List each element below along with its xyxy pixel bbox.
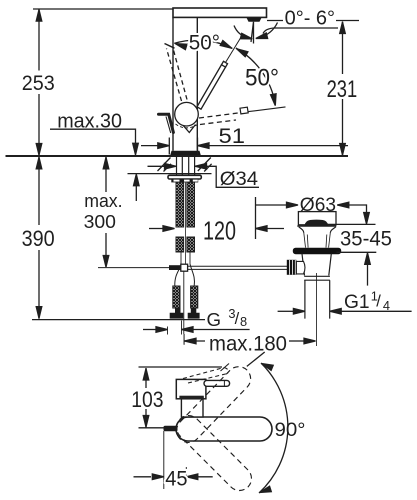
aerator tilt line — [251, 22, 254, 44]
dim 120 line — [149, 228, 163, 230]
lever solid outline — [197, 61, 228, 109]
plan body — [176, 379, 206, 398]
o63 right drop arrow — [366, 204, 368, 212]
g38 underline — [182, 329, 250, 331]
plan view 103 top line — [139, 366, 223, 368]
svg-text:51: 51 — [219, 125, 246, 148]
spout bar — [173, 8, 267, 17]
svg-text:max.: max. — [84, 190, 122, 211]
spout hook inner line — [166, 117, 171, 134]
plan lever tick — [223, 381, 225, 387]
g114 left arrow — [278, 310, 294, 312]
plan solid spout pill — [176, 417, 272, 441]
popup plug dome — [305, 220, 329, 226]
rod double line right — [188, 266, 287, 269]
dim 253 extension line top — [33, 8, 173, 10]
body left edge — [172, 18, 174, 151]
max30 leader — [50, 129, 136, 143]
drain body — [302, 254, 331, 276]
g38 dim ext lines — [168, 321, 182, 335]
hose curve right — [190, 264, 194, 286]
dim 103 line — [145, 368, 147, 428]
aerator outlet — [247, 18, 262, 22]
svg-text:253: 253 — [22, 71, 55, 95]
faucet centerline below — [183, 271, 185, 344]
dim 390 line — [38, 157, 40, 319]
stud tails — [181, 252, 190, 266]
arc 50 upper — [174, 40, 232, 49]
lowered lever cap box — [240, 107, 248, 114]
35-45 lower arrow — [367, 264, 369, 286]
drain neck — [304, 233, 331, 248]
stud left upper — [176, 182, 184, 227]
svg-text:8: 8 — [240, 314, 247, 329]
lever axis line — [226, 38, 241, 63]
stud caps — [176, 182, 195, 185]
drain pipe — [305, 280, 330, 318]
max180 left arrow — [185, 338, 197, 344]
35-45 top line — [327, 223, 376, 225]
svg-text:50°: 50° — [189, 31, 220, 55]
svg-text:120: 120 — [203, 218, 236, 246]
hose right — [191, 286, 198, 308]
dim o34 arrows — [148, 165, 165, 167]
dim max300 line — [105, 157, 107, 267]
svg-text:90°: 90° — [275, 420, 306, 441]
connector right — [188, 308, 200, 319]
hose left — [173, 286, 180, 308]
dim 45 arrows — [134, 476, 152, 478]
svg-text:50°: 50° — [245, 64, 279, 91]
stud left lower — [176, 237, 184, 252]
swivel tangent line — [247, 352, 265, 366]
dim 231 top leader — [267, 20, 359, 22]
lever cap tick — [221, 64, 226, 67]
rod housing — [296, 261, 305, 274]
svg-text:Ø34: Ø34 — [220, 168, 258, 190]
svg-text:G: G — [207, 309, 222, 330]
dashed arc under circle — [176, 124, 198, 128]
lever dashed raised — [167, 47, 188, 102]
hose curve left — [175, 266, 181, 287]
dim o63 line — [256, 204, 287, 206]
svg-text:4: 4 — [383, 298, 390, 313]
plan lever bar — [204, 380, 230, 386]
rod coupler dark — [169, 265, 182, 270]
plan 103 bottom line — [139, 427, 168, 429]
rod knob knurled — [287, 260, 297, 275]
arc 50 lower — [236, 48, 275, 104]
flange trumpet sides — [299, 227, 336, 233]
hose bottom line — [32, 319, 205, 321]
dashed pill up — [172, 362, 256, 448]
svg-text:/: / — [235, 310, 240, 328]
stud right lower — [187, 237, 195, 252]
g38 dim arrows — [143, 329, 156, 331]
plan raised lever dashed — [183, 368, 228, 384]
90 arc — [259, 363, 288, 493]
dim 51 line — [141, 145, 348, 147]
svg-text:45: 45 — [165, 465, 187, 490]
svg-text:390: 390 — [22, 226, 55, 251]
svg-text:Ø63: Ø63 — [300, 195, 336, 216]
deck hatch right — [198, 158, 212, 172]
base plate — [170, 151, 201, 156]
shank — [177, 156, 195, 175]
plan raised lever cap — [224, 368, 228, 374]
drain lower band — [304, 276, 330, 280]
max180 right arrow — [289, 340, 304, 342]
dim 45 ext lines — [164, 431, 187, 489]
rod joint square — [181, 264, 188, 271]
flange underside — [297, 225, 336, 227]
max30 lower arrow — [135, 175, 137, 202]
dashed pill down — [172, 411, 257, 496]
plan neck — [181, 399, 203, 417]
cartridge circle — [175, 102, 199, 126]
dim 51 ext lines — [169, 138, 197, 155]
svg-text:/: / — [376, 293, 381, 311]
raised lever cap tick — [165, 44, 175, 49]
below-deck centerline upper — [184, 183, 186, 265]
deck line — [6, 155, 349, 157]
lowered lever dashed — [199, 113, 240, 125]
35-45 bottom line — [337, 251, 377, 253]
dim 120 right arrow — [255, 197, 257, 239]
svg-text:35-45: 35-45 — [340, 227, 392, 251]
tilt arc left — [234, 26, 249, 39]
drip mark — [183, 125, 196, 133]
plan aerator nub — [164, 426, 178, 431]
escutcheon plate — [168, 175, 201, 179]
dim 253 line — [38, 9, 40, 156]
plan body bottom dark — [179, 396, 203, 399]
svg-text:103: 103 — [131, 387, 163, 412]
svg-text:231: 231 — [327, 76, 358, 103]
svg-text:max.180: max.180 — [209, 331, 287, 355]
g114 leader — [330, 310, 412, 312]
o34 leader — [195, 166, 259, 187]
dim 231 line — [342, 22, 344, 156]
drain oring — [293, 248, 341, 255]
svg-text:G1: G1 — [344, 292, 370, 313]
popup rod — [98, 267, 169, 269]
tilt arc right — [260, 23, 278, 38]
svg-text:300: 300 — [84, 211, 116, 232]
washer row — [171, 179, 198, 183]
deck hatch left — [158, 158, 172, 172]
connector left — [170, 308, 184, 319]
deck underside line — [128, 173, 212, 175]
spout profile hook — [159, 114, 174, 132]
stud right upper — [187, 182, 195, 227]
max180 left ext — [183, 334, 185, 345]
svg-text:0°- 6°: 0°- 6° — [285, 8, 335, 30]
drain centerline — [316, 273, 318, 346]
drain flange top cylinder — [298, 212, 336, 225]
0-6 lower leader — [263, 28, 338, 34]
body right edge — [196, 18, 198, 151]
svg-text:max.30: max.30 — [57, 110, 122, 133]
